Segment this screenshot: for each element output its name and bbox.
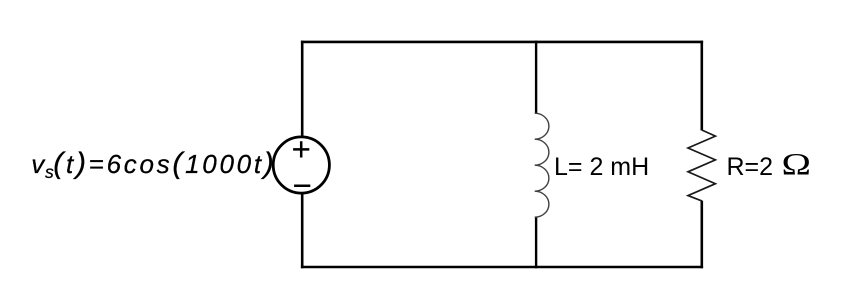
voltage source plus sign — [293, 141, 309, 157]
svg-text:L= 2 mH: L= 2 mH — [554, 153, 649, 181]
wire bottom — [301, 266, 703, 269]
wire right vertical above resistor — [700, 41, 703, 131]
wire top — [301, 41, 703, 44]
voltage source VS circle — [273, 137, 329, 193]
voltage source minus sign — [294, 185, 310, 188]
svg-text:Ω: Ω — [782, 146, 811, 181]
svg-text:vs(t)=6cos(1000t): vs(t)=6cos(1000t) — [31, 147, 276, 182]
wire left vertical below source — [301, 193, 304, 268]
wire middle vertical below inductor — [535, 217, 537, 269]
wire left vertical above source — [301, 41, 304, 138]
svg-text:R=2: R=2 — [727, 153, 774, 181]
inductor L1 coil — [535, 113, 549, 217]
wire middle vertical above inductor — [535, 41, 537, 114]
resistor R1 zigzag — [688, 130, 715, 201]
wire right vertical below resistor — [700, 201, 703, 269]
